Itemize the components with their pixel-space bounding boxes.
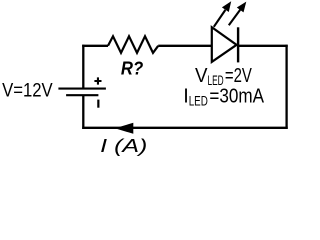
svg-text:V=12V: V=12V [2, 80, 53, 102]
svg-text:=2V: =2V [225, 65, 253, 87]
battery top plate (positive, long) [58, 88, 106, 90]
label R? (resistor value) [121, 57, 143, 78]
wire bottom [82, 127, 288, 129]
label V=12V (source value) [2, 80, 53, 102]
battery bottom plate (negative, short) [66, 94, 98, 96]
wire left upper (top corner to battery top plate) [82, 45, 84, 89]
svg-text:I (A): I (A) [100, 135, 147, 156]
current arrow (pointing left) [115, 123, 134, 134]
LED diode triangle (anode) [212, 27, 237, 62]
label I (A) (current) [100, 135, 147, 156]
svg-text:V: V [195, 65, 208, 87]
battery minus tick [97, 100, 99, 108]
wire right side [285, 45, 287, 129]
LED light arrow 1 [214, 1, 231, 27]
svg-text:LED: LED [189, 93, 208, 108]
LED cathode bar [237, 27, 239, 62]
battery plus sign [94, 77, 101, 84]
wire left lower (battery bottom plate to bottom corner) [82, 95, 84, 129]
label ILED=30mA (LED current) [183, 85, 264, 108]
svg-text:=30mA: =30mA [209, 85, 264, 107]
resistor R? (zigzag) [108, 36, 158, 53]
svg-text:R?: R? [121, 57, 143, 78]
wire LED-to-right [238, 45, 288, 47]
label VLED=2V (LED voltage) [195, 65, 252, 88]
wire resistor-to-LED [158, 45, 212, 47]
LED light arrow 2 [229, 2, 247, 26]
wire top-left segment [82, 45, 108, 47]
